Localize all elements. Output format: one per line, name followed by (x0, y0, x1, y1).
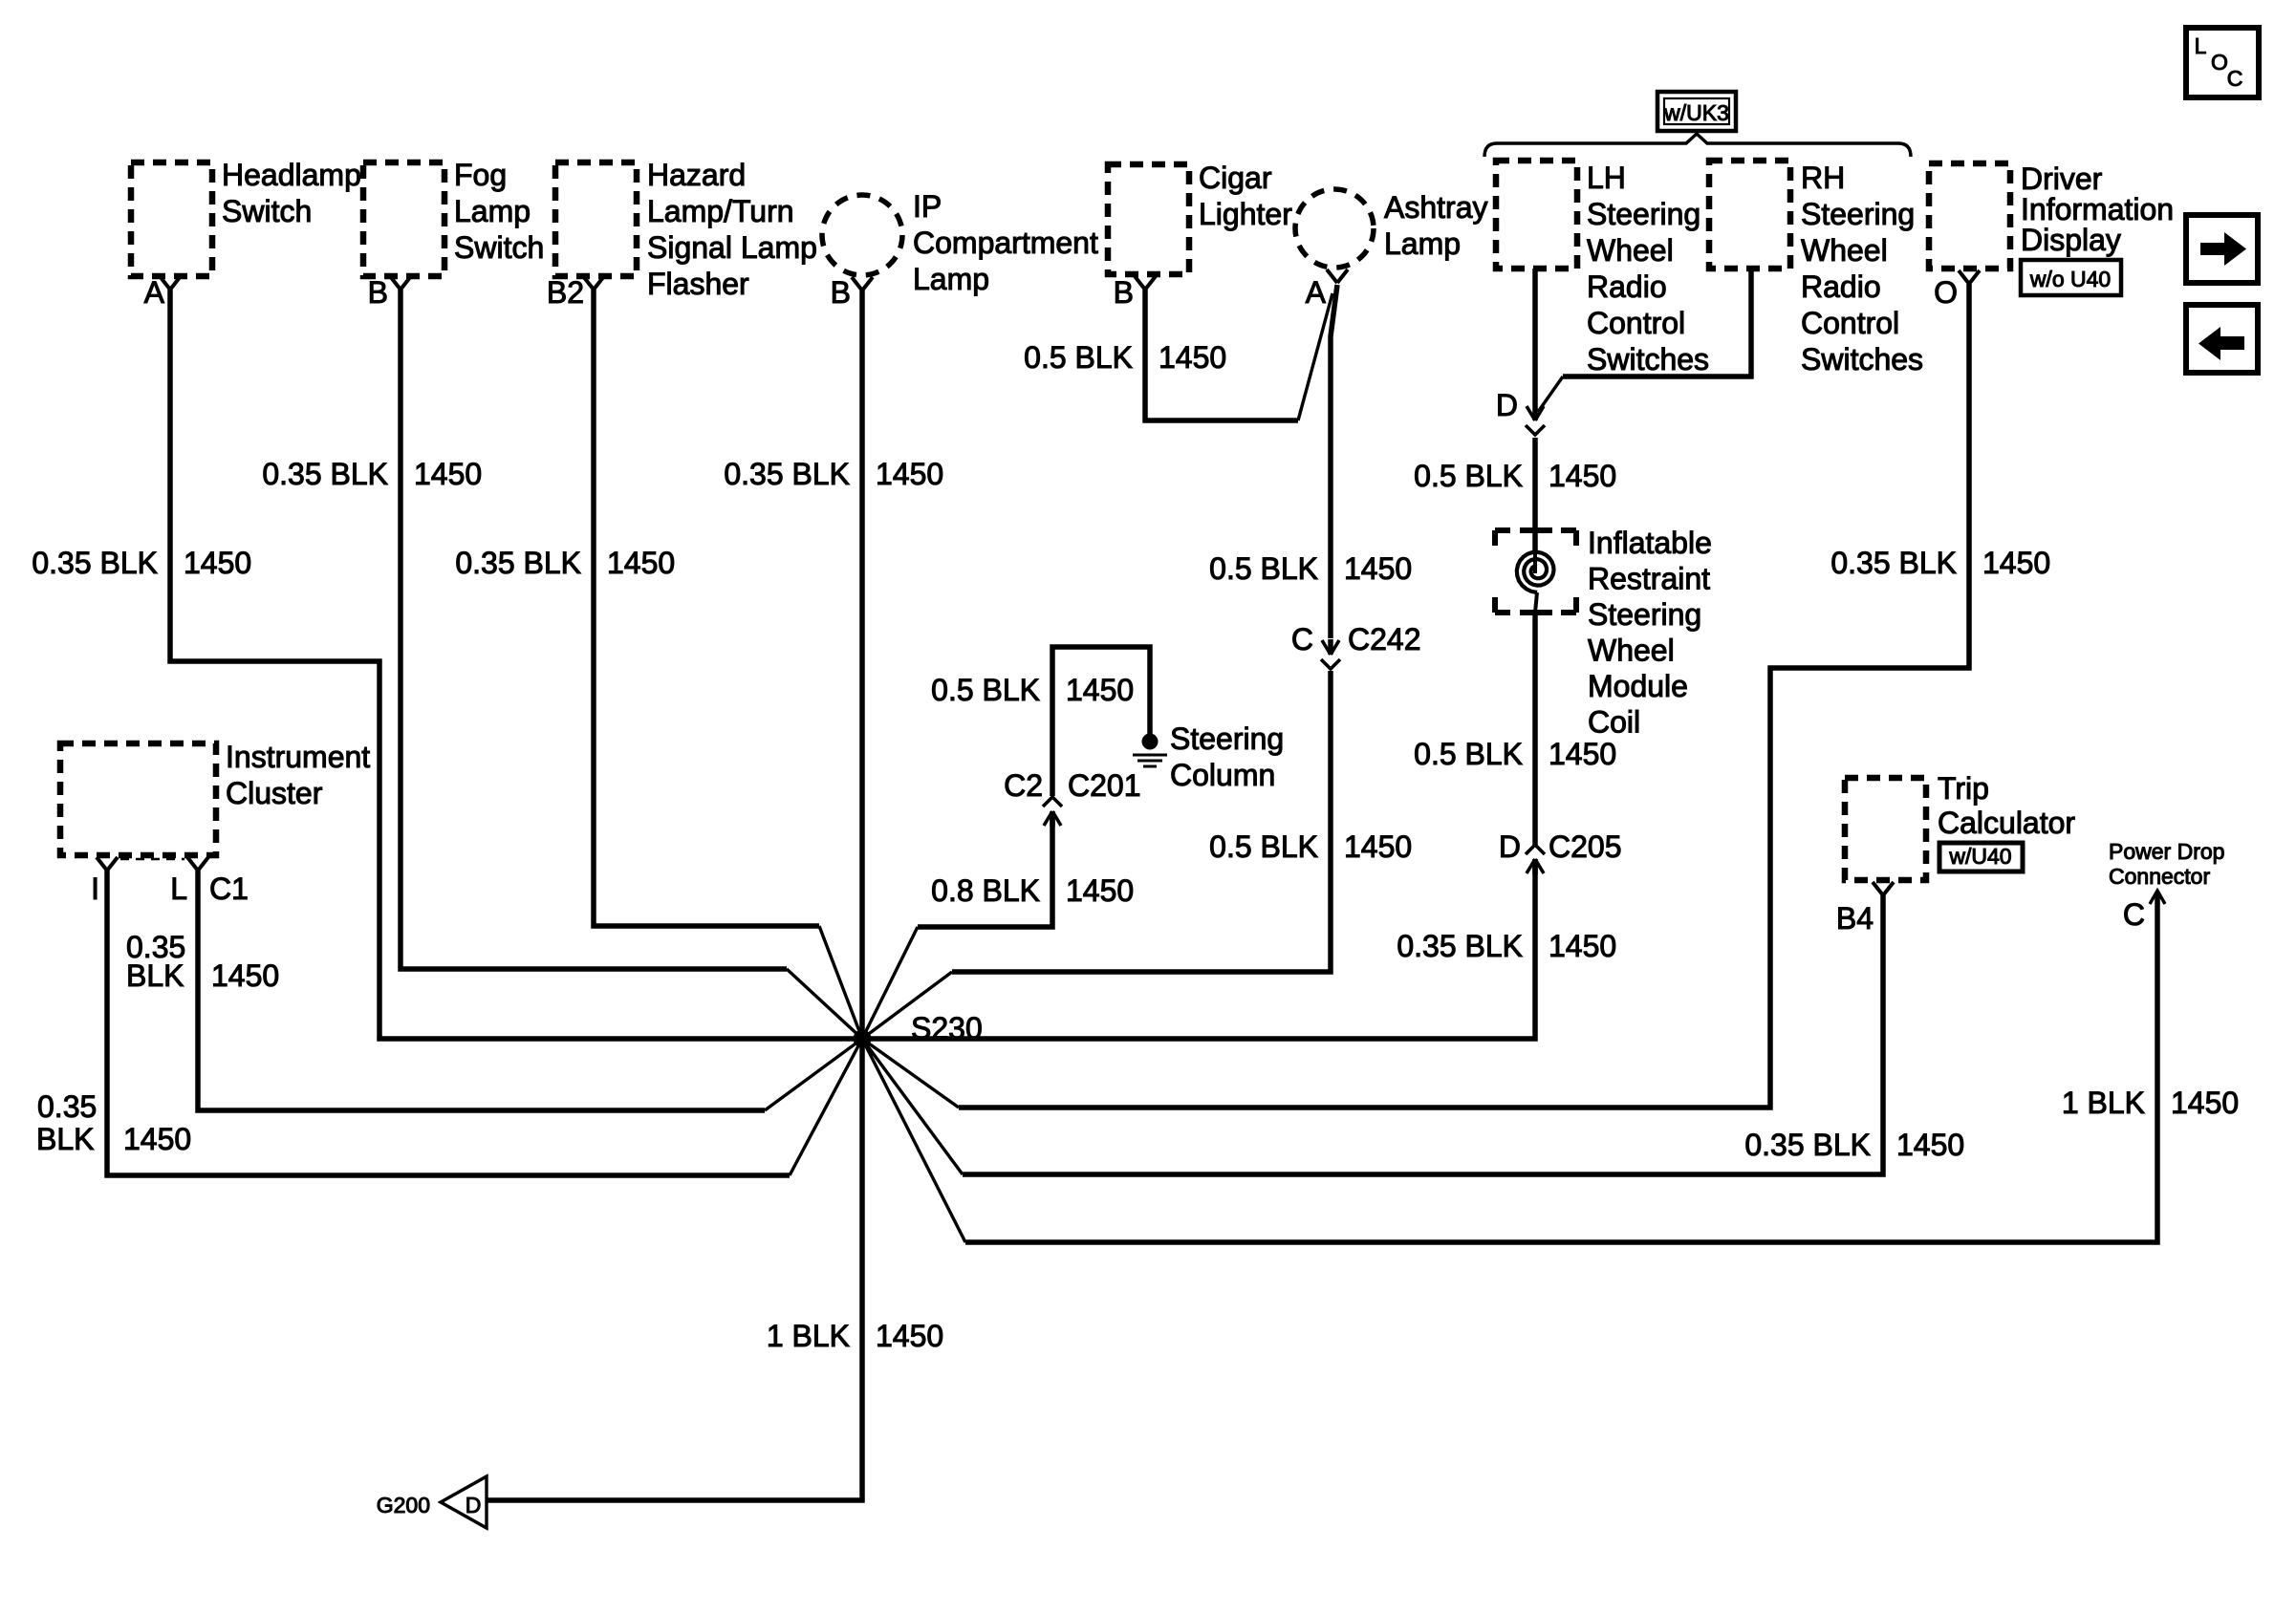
svg-text:Steering: Steering (1587, 197, 1700, 231)
left arrow (2199, 327, 2244, 360)
svg-text:0.8 BLK: 0.8 BLK (931, 873, 1040, 908)
headlamp switch box (131, 162, 212, 276)
pin B fork ip lamp (852, 277, 862, 291)
hazard flasher box (555, 162, 637, 276)
svg-text:Steering: Steering (1588, 597, 1701, 632)
svg-text:Calculator: Calculator (1938, 806, 2075, 840)
svg-text:0.35 BLK: 0.35 BLK (455, 546, 581, 580)
wire ashtray A down (1331, 285, 1337, 638)
svg-text:Information: Information (2021, 192, 2174, 226)
svg-text:Cigar: Cigar (1199, 161, 1272, 195)
svg-text:Switches: Switches (1801, 342, 1923, 377)
svg-text:Restraint: Restraint (1588, 562, 1710, 596)
svg-text:1450: 1450 (1344, 829, 1412, 864)
wire hazard B2 down (594, 290, 819, 926)
svg-text:C242: C242 (1348, 622, 1421, 656)
wire lh switches down (1532, 269, 1538, 405)
svg-text:0.5 BLK: 0.5 BLK (1024, 340, 1133, 375)
svg-text:Signal Lamp: Signal Lamp (647, 230, 817, 265)
splice S230 dot (854, 1030, 872, 1048)
svg-text:w/UK3: w/UK3 (1663, 100, 1729, 125)
svg-text:Connector: Connector (2109, 864, 2210, 889)
svg-text:1450: 1450 (1066, 673, 1134, 707)
wire cluster L to S230 (198, 871, 765, 1110)
w/o U40 option box (2021, 260, 2121, 295)
wire into spiral (1533, 550, 1537, 573)
svg-text:0.5 BLK: 0.5 BLK (931, 673, 1040, 707)
svg-text:1450: 1450 (1344, 551, 1412, 586)
fog lamp switch box (363, 162, 444, 276)
wire C201 diagonal to S230 (862, 927, 918, 1039)
svg-text:Inflatable: Inflatable (1588, 526, 1712, 560)
svg-text:0.35 BLK: 0.35 BLK (262, 457, 388, 491)
wire headlamp A to S230 (170, 290, 862, 1039)
svg-text:B2: B2 (547, 275, 584, 310)
svg-text:Module: Module (1588, 669, 1688, 703)
power drop arrow (2150, 891, 2165, 904)
svg-text:1450: 1450 (1549, 737, 1616, 771)
svg-text:A: A (144, 275, 165, 310)
svg-text:Headlamp: Headlamp (222, 158, 361, 192)
svg-text:w/U40: w/U40 (1948, 844, 2011, 869)
svg-text:1 BLK: 1 BLK (767, 1319, 850, 1353)
svg-text:A: A (1306, 275, 1327, 310)
svg-text:1450: 1450 (1549, 459, 1616, 493)
wire lh to S230 horizontal (862, 859, 1535, 1039)
svg-text:D: D (1496, 388, 1518, 422)
svg-text:Driver: Driver (2021, 161, 2103, 196)
svg-text:S230: S230 (911, 1011, 983, 1045)
svg-text:1 BLK: 1 BLK (2062, 1086, 2145, 1120)
svg-text:1450: 1450 (184, 546, 251, 580)
svg-text:Wheel: Wheel (1587, 233, 1674, 268)
wire power drop diagonal (862, 1039, 965, 1242)
wire lh below coil (1532, 613, 1538, 845)
svg-text:Lamp: Lamp (1384, 226, 1461, 261)
wire hazard diagonal to S230 (819, 926, 862, 1039)
svg-text:L: L (170, 872, 187, 906)
cluster pin dashes (120, 858, 184, 861)
svg-text:C1: C1 (209, 872, 249, 906)
pin O fork did (1959, 270, 1969, 284)
svg-text:0.35: 0.35 (37, 1089, 97, 1124)
inflatable restraint coil box (1495, 527, 1510, 533)
svg-text:Control: Control (1801, 306, 1899, 340)
svg-text:0.35 BLK: 0.35 BLK (32, 546, 158, 580)
wire steering column top (1052, 647, 1150, 796)
driver information display box (1929, 163, 2010, 269)
pin B4 fork (1873, 882, 1883, 895)
left arrow box (2186, 305, 2258, 373)
svg-text:C: C (2227, 66, 2243, 91)
connector C201 symbol (1050, 811, 1055, 827)
connector C205 symbol (1532, 859, 1538, 874)
wire fog diagonal to S230 (787, 969, 862, 1039)
wire rh diagonal to D (1538, 377, 1563, 412)
ashtray lamp circle (1295, 189, 1374, 268)
svg-text:Switches: Switches (1587, 342, 1709, 377)
wire cluster I to S230 (107, 871, 790, 1175)
svg-text:Radio: Radio (1587, 269, 1667, 304)
svg-text:D: D (1499, 829, 1521, 864)
svg-text:C201: C201 (1068, 768, 1141, 803)
svg-text:C: C (2123, 897, 2145, 932)
connector C242 symbol (1328, 639, 1333, 655)
svg-text:LH: LH (1587, 161, 1626, 195)
wire cigar B down-right (1145, 290, 1298, 420)
LOC legend box (2186, 28, 2259, 97)
svg-text:Steering: Steering (1170, 721, 1284, 756)
svg-text:w/o U40: w/o U40 (2029, 267, 2111, 291)
connector D arrow symbol (1532, 405, 1538, 420)
pin A fork ashtray (1327, 269, 1337, 283)
svg-text:BLK: BLK (36, 1122, 94, 1156)
svg-text:Fog: Fog (454, 158, 507, 192)
wire below C201 to S230 (918, 811, 1052, 927)
wire power drop to S230 (965, 893, 2157, 1242)
wire fog B down (401, 290, 787, 969)
wire did diagonal to S230 (862, 1039, 959, 1108)
svg-text:BLK: BLK (126, 958, 184, 993)
wire S230 to G200 (487, 1039, 862, 1500)
svg-text:Column: Column (1170, 758, 1275, 792)
svg-text:C205: C205 (1549, 829, 1622, 864)
svg-text:Trip: Trip (1938, 771, 1989, 806)
svg-text:O: O (1934, 275, 1958, 310)
steering column ground (1142, 734, 1159, 750)
wire trip B4 to S230 (963, 895, 1883, 1174)
G200 triangle (441, 1476, 487, 1528)
wire did O to S230 (959, 284, 1969, 1108)
svg-text:Lighter: Lighter (1199, 197, 1292, 231)
svg-text:Lamp: Lamp (913, 262, 989, 296)
svg-text:Compartment: Compartment (913, 226, 1098, 260)
wire trip diagonal (862, 1039, 963, 1174)
svg-text:Coil: Coil (1588, 705, 1640, 740)
svg-text:C2: C2 (1004, 768, 1043, 803)
svg-text:B: B (368, 275, 388, 310)
w/UK3 option box (1657, 92, 1736, 131)
svg-text:0.35 BLK: 0.35 BLK (724, 457, 850, 491)
wire ashtray below C242 (952, 671, 1331, 972)
pin A fork headlamp (160, 276, 170, 290)
svg-text:G200: G200 (377, 1493, 430, 1517)
svg-text:Steering: Steering (1801, 197, 1915, 231)
svg-text:1450: 1450 (2171, 1086, 2239, 1120)
svg-text:Switch: Switch (222, 194, 312, 228)
svg-text:1450: 1450 (1066, 873, 1134, 908)
w/U40 option box (1939, 843, 2023, 872)
svg-text:Hazard: Hazard (647, 158, 746, 192)
svg-text:0.35 BLK: 0.35 BLK (1830, 546, 1957, 580)
svg-text:Flasher: Flasher (647, 267, 749, 301)
svg-text:0.35 BLK: 0.35 BLK (1744, 1128, 1871, 1162)
cigar lighter box (1108, 164, 1189, 274)
wire cigar diagonal up to A (1298, 293, 1332, 420)
wire rh switches down-left (1563, 269, 1751, 377)
rh steering wheel radio control switches box (1709, 161, 1790, 269)
svg-text:1450: 1450 (123, 1122, 191, 1156)
svg-text:Radio: Radio (1801, 269, 1881, 304)
svg-text:1450: 1450 (1549, 929, 1616, 963)
svg-text:I: I (91, 872, 99, 906)
svg-text:Switch: Switch (454, 230, 544, 265)
svg-text:C: C (1291, 622, 1313, 656)
svg-text:Wheel: Wheel (1801, 233, 1888, 268)
pin B2 fork hazard (583, 276, 594, 290)
svg-text:1450: 1450 (211, 958, 279, 993)
svg-text:B: B (831, 275, 851, 310)
svg-text:L: L (2195, 33, 2207, 58)
svg-text:B4: B4 (1836, 901, 1874, 936)
svg-text:1450: 1450 (876, 1319, 943, 1353)
svg-text:RH: RH (1801, 161, 1845, 195)
svg-text:Ashtray: Ashtray (1384, 190, 1487, 225)
svg-text:Cluster: Cluster (226, 776, 323, 810)
svg-text:0.35 BLK: 0.35 BLK (1397, 929, 1523, 963)
wire ashtray diagonal to S230 (862, 972, 952, 1039)
svg-text:1450: 1450 (607, 546, 675, 580)
ip compartment lamp circle (822, 195, 902, 275)
wire cluster I diagonal (790, 1039, 862, 1175)
svg-text:1450: 1450 (876, 457, 943, 491)
svg-text:Lamp/Turn: Lamp/Turn (647, 194, 794, 228)
wire lh below D (1532, 438, 1538, 550)
svg-text:Display: Display (2021, 223, 2121, 257)
svg-text:1450: 1450 (1982, 546, 2050, 580)
pin L fork (187, 857, 198, 871)
svg-text:Control: Control (1587, 306, 1685, 340)
svg-text:Instrument: Instrument (226, 740, 370, 774)
svg-text:0.5 BLK: 0.5 BLK (1414, 459, 1523, 493)
svg-text:B: B (1114, 275, 1134, 310)
svg-text:Lamp: Lamp (454, 194, 531, 228)
pin B fork fog (390, 276, 401, 290)
svg-text:Power Drop: Power Drop (2109, 839, 2224, 864)
svg-text:0.5 BLK: 0.5 BLK (1209, 829, 1318, 864)
pin B fork cigar (1135, 276, 1145, 290)
trip calculator box (1845, 778, 1926, 880)
clockspring spiral (1517, 552, 1554, 592)
svg-text:D: D (466, 1493, 482, 1517)
svg-text:O: O (2211, 50, 2228, 75)
pin I fork (97, 857, 107, 871)
svg-text:IP: IP (913, 189, 942, 224)
svg-text:1450: 1450 (1159, 340, 1226, 375)
svg-text:1450: 1450 (1896, 1128, 1964, 1162)
svg-text:0.5 BLK: 0.5 BLK (1414, 737, 1523, 771)
wire cluster L diagonal (765, 1039, 862, 1110)
svg-text:0.5 BLK: 0.5 BLK (1209, 551, 1318, 586)
w/UK3 brace (1484, 134, 1911, 157)
right arrow box (2186, 215, 2258, 283)
wire ip lamp B down (859, 291, 865, 1039)
svg-text:Wheel: Wheel (1588, 634, 1675, 668)
lh steering wheel radio control switches box (1496, 161, 1577, 269)
right arrow (2200, 232, 2246, 266)
instrument cluster box (60, 743, 216, 855)
svg-text:1450: 1450 (414, 457, 482, 491)
